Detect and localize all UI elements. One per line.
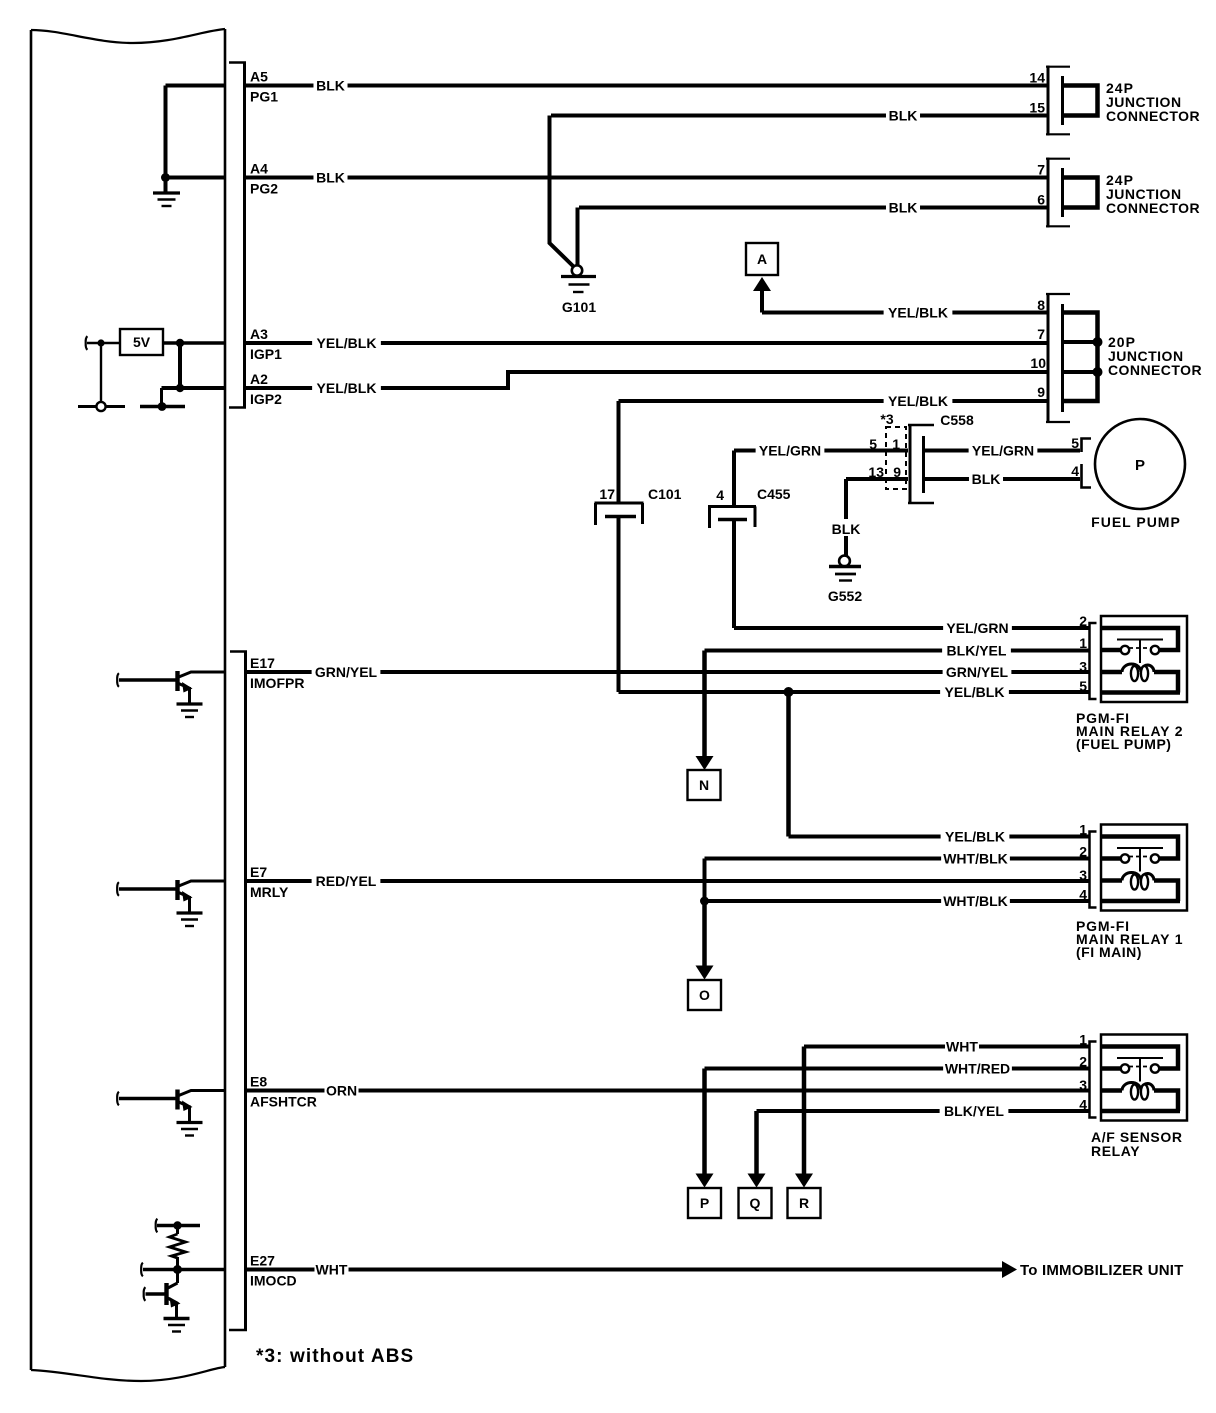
destination box R — [788, 1188, 821, 1218]
wire BLK/YEL relay2 pin1 — [705, 642, 1090, 660]
svg-text:ORN: ORN — [326, 1083, 357, 1099]
svg-text:15: 15 — [1029, 100, 1045, 116]
relay PGM-FI MAIN RELAY 2 (FUEL PUMP) — [1079, 613, 1187, 702]
wire WHT/RED af relay pin2 — [705, 1060, 1090, 1078]
in-line connector C101 (pin 17) — [595, 486, 682, 525]
junction dot E27 wire — [173, 1265, 182, 1274]
svg-text:10: 10 — [1030, 355, 1046, 371]
svg-text:9: 9 — [1037, 384, 1045, 400]
wire drop to R — [802, 1047, 807, 1174]
wire BLK to G552 — [830, 479, 862, 556]
svg-text:WHT: WHT — [316, 1262, 348, 1278]
label PGM-FI MAIN RELAY 1 — [1076, 918, 1183, 960]
transistor E8 driver — [117, 1090, 226, 1136]
svg-text:P: P — [1135, 457, 1145, 474]
wire A5 BLK — [244, 77, 1048, 95]
pin A3/IGP1 label — [250, 326, 282, 362]
continuation hook E27 rail — [156, 1219, 158, 1233]
label 24P junction connector (second) — [1106, 172, 1200, 216]
svg-text:AFSHTCR: AFSHTCR — [250, 1094, 317, 1110]
body-ground open circle — [96, 402, 105, 411]
label C558 pin 1 — [892, 436, 900, 452]
fuel pump connector brackets — [1082, 439, 1092, 488]
24P junction connector (pins 7,6) — [1037, 158, 1097, 228]
svg-text:*3: *3 — [880, 411, 893, 427]
svg-text:14: 14 — [1029, 70, 1045, 86]
ground bar A2 — [140, 402, 185, 411]
label C558 pin 13 — [868, 464, 884, 480]
svg-text:Q: Q — [750, 1195, 761, 1211]
arrow to O — [696, 966, 714, 980]
wire riser A3-A2 — [178, 343, 182, 388]
label 24P junction connector (top) — [1106, 80, 1200, 124]
voltage regulator box 5V — [120, 329, 163, 355]
relay A/F SENSOR RELAY — [1079, 1032, 1187, 1121]
wire YEL/BLK to relay2 pin5 — [619, 683, 1090, 701]
pin E7/MRLY label — [250, 864, 289, 900]
svg-text:E27: E27 — [250, 1253, 275, 1269]
wire ORN E8 to af relay pin3 — [244, 1082, 1089, 1100]
5V reference branch — [78, 343, 125, 407]
transistor E27 driver — [144, 1283, 190, 1332]
ground G552 symbol — [828, 556, 862, 604]
svg-text:C455: C455 — [757, 486, 791, 502]
label C558 pin 5 (left) — [869, 436, 877, 452]
24P junction connector (pins 14,15) — [1029, 66, 1097, 136]
wire BLK C558 to fuel pump — [924, 470, 1081, 488]
svg-text:To IMMOBILIZER UNIT: To IMMOBILIZER UNIT — [1020, 1262, 1184, 1279]
svg-text:BLK: BLK — [889, 200, 918, 216]
svg-text:BLK: BLK — [972, 471, 1001, 487]
svg-text:R: R — [799, 1195, 809, 1211]
svg-text:4: 4 — [716, 487, 724, 503]
wire YEL/GRN to C558 — [734, 442, 908, 460]
svg-text:PG1: PG1 — [250, 89, 278, 105]
svg-text:YEL/BLK: YEL/BLK — [888, 393, 948, 409]
svg-text:YEL/BLK: YEL/BLK — [945, 684, 1005, 700]
svg-text:RED/YEL: RED/YEL — [316, 873, 377, 889]
arrow to A — [753, 277, 771, 313]
wire A4 internal — [166, 176, 227, 180]
transistor E17 driver — [117, 671, 226, 717]
svg-text:BLK: BLK — [316, 170, 345, 186]
junction dot O branch — [700, 897, 709, 906]
junction dot A3 branch — [176, 339, 184, 347]
junction dot 20P pin10 bus — [1093, 367, 1103, 377]
arrow to P — [696, 1174, 714, 1188]
wire riser C101 net — [617, 401, 621, 692]
wire WHT af relay pin1 — [804, 1038, 1089, 1056]
ECM/PCM box (torn-edge outline) — [31, 29, 225, 1381]
wire A2 internal — [162, 386, 227, 390]
wire drop to O — [702, 901, 707, 966]
connector C558 — [908, 412, 974, 504]
svg-text:7: 7 — [1037, 326, 1045, 342]
fuel pump motor — [1091, 419, 1185, 530]
destination box A — [746, 243, 778, 275]
svg-text:17: 17 — [599, 486, 615, 502]
svg-text:G101: G101 — [562, 299, 596, 315]
svg-text:BLK/YEL: BLK/YEL — [944, 1103, 1004, 1119]
svg-text:BLK: BLK — [832, 521, 861, 537]
svg-text:YEL/BLK: YEL/BLK — [945, 829, 1005, 845]
wire drop to P — [702, 1069, 707, 1174]
svg-text:A2: A2 — [250, 371, 268, 387]
svg-text:CONNECTOR: CONNECTOR — [1106, 200, 1200, 216]
wire riser to N — [702, 651, 707, 757]
svg-text:G552: G552 — [828, 588, 862, 604]
svg-text:(FI MAIN): (FI MAIN) — [1076, 944, 1142, 960]
svg-text:BLK: BLK — [889, 108, 918, 124]
label PGM-FI MAIN RELAY 2 — [1076, 710, 1183, 752]
wire WHT/BLK relay1 pin4 — [705, 892, 1090, 910]
wire 5V to A3 pin — [163, 341, 226, 345]
svg-text:CONNECTOR: CONNECTOR — [1106, 108, 1200, 124]
wire WHT E27 to immobilizer — [244, 1261, 1003, 1279]
arrow to Q — [748, 1174, 766, 1188]
destination box O — [688, 980, 721, 1010]
wire WHT/BLK relay1 pin2 — [705, 850, 1090, 868]
svg-text:E8: E8 — [250, 1074, 267, 1090]
pin A5/PG1 label — [250, 69, 278, 105]
svg-text:GRN/YEL: GRN/YEL — [946, 664, 1009, 680]
in-line connector C455 (pin 4) — [708, 486, 791, 528]
continuation hook 5V — [86, 336, 88, 350]
wire YEL/BLK to 20P pin 8 — [762, 304, 1048, 322]
continuation hook E27 wire — [141, 1263, 143, 1277]
svg-text:*3: without ABS: *3: without ABS — [256, 1346, 414, 1367]
svg-text:O: O — [699, 987, 710, 1003]
pin E27/IMOCD label — [250, 1253, 297, 1289]
note *3 without ABS — [256, 1346, 414, 1367]
pin E17/IMOFPR label — [250, 655, 304, 691]
arrow to immobilizer unit — [1002, 1261, 1017, 1278]
wire riser O branch — [703, 859, 707, 902]
pin A4/PG2 label — [250, 161, 278, 197]
wire internal riser A5-A4 — [164, 86, 168, 192]
svg-text:A3: A3 — [250, 326, 268, 342]
wire BLK/YEL af relay pin4 — [757, 1102, 1090, 1120]
svg-text:E7: E7 — [250, 864, 267, 880]
junction dot A4 ground — [161, 173, 170, 182]
svg-text:5: 5 — [1071, 435, 1079, 451]
wire drop to transistor collector — [176, 1270, 179, 1284]
svg-text:A4: A4 — [250, 161, 268, 177]
svg-text:5V: 5V — [133, 334, 151, 350]
wire YEL/GRN to relay2 pin2 — [734, 619, 1089, 637]
wire riser G101 left — [550, 116, 574, 267]
arrow to R — [795, 1174, 813, 1188]
svg-text:IGP2: IGP2 — [250, 391, 282, 407]
20P junction connector (pins 8,7,10,9) — [1030, 293, 1097, 423]
svg-text:PG2: PG2 — [250, 181, 278, 197]
transistor E7 driver — [117, 880, 226, 926]
wire riser C455 net — [732, 451, 736, 629]
svg-text:RELAY: RELAY — [1091, 1143, 1140, 1159]
fuel pump pin 4 label — [1071, 463, 1079, 479]
wire BLK to 24P pin 6 — [579, 199, 1048, 217]
wire riser relay1 pin1 — [786, 692, 791, 837]
svg-text:GRN/YEL: GRN/YEL — [315, 664, 378, 680]
wire A2 YEL/BLK (jog up to pin 10) — [244, 372, 1048, 397]
wire BLK to 24P pin 15 — [551, 107, 1048, 125]
destination box Q — [739, 1188, 772, 1218]
junction dot YEL/BLK branch — [784, 687, 794, 697]
without-ABS dashed box (*3) — [880, 411, 906, 489]
ground G101 symbol — [561, 265, 596, 315]
svg-text:YEL/BLK: YEL/BLK — [317, 335, 377, 351]
junction dot 20P pin7 bus — [1093, 337, 1103, 347]
wire GRN/YEL E17 to relay2 pin3 — [244, 663, 1089, 681]
svg-text:BLK/YEL: BLK/YEL — [947, 643, 1007, 659]
svg-text:C101: C101 — [648, 486, 682, 502]
destination box P — [688, 1188, 721, 1218]
arrow to N — [696, 756, 714, 770]
svg-text:YEL/GRN: YEL/GRN — [972, 443, 1034, 459]
svg-text:IMOCD: IMOCD — [250, 1273, 297, 1289]
wire A2 ground drop — [160, 388, 163, 404]
ground ECM internal (A5/A4) — [153, 193, 180, 206]
svg-text:A5: A5 — [250, 69, 268, 85]
svg-text:P: P — [700, 1195, 709, 1211]
svg-text:IGP1: IGP1 — [250, 346, 282, 362]
resistor E27 pull-up — [170, 1226, 186, 1270]
pin A2/IGP2 label — [250, 371, 282, 407]
wire YEL/BLK from 20P pin 9 — [619, 392, 1049, 410]
svg-text:YEL/BLK: YEL/BLK — [888, 305, 948, 321]
junction dot A2 branch — [176, 384, 184, 392]
svg-text:MRLY: MRLY — [250, 884, 289, 900]
wire drop to Q — [754, 1111, 759, 1174]
junction dot 5V left — [97, 339, 104, 346]
svg-text:WHT/BLK: WHT/BLK — [943, 851, 1008, 867]
svg-text:A: A — [757, 251, 767, 267]
wire A5 internal — [166, 84, 227, 88]
wire RED/YEL E7 to relay1 pin3 — [244, 872, 1089, 890]
svg-text:FUEL PUMP: FUEL PUMP — [1091, 514, 1181, 530]
label 20P junction connector — [1108, 334, 1202, 378]
wire E27 internal — [143, 1268, 226, 1271]
svg-text:5: 5 — [1079, 678, 1087, 694]
svg-text:WHT: WHT — [946, 1039, 978, 1055]
label To IMMOBILIZER UNIT — [1020, 1262, 1184, 1279]
svg-text:E17: E17 — [250, 655, 275, 671]
svg-text:IMOFPR: IMOFPR — [250, 675, 304, 691]
svg-text:WHT/RED: WHT/RED — [945, 1061, 1010, 1077]
label C558 pin 9 — [893, 464, 901, 480]
svg-text:C558: C558 — [940, 412, 974, 428]
junction dot E27 rail — [173, 1221, 181, 1229]
wire YEL/GRN C558 to fuel pump — [924, 442, 1081, 460]
svg-text:(FUEL PUMP): (FUEL PUMP) — [1076, 736, 1171, 752]
pin E8/AFSHTCR label — [250, 1074, 317, 1110]
wire A3 YEL/BLK — [244, 334, 1048, 352]
svg-text:5: 5 — [869, 436, 877, 452]
svg-text:7: 7 — [1037, 162, 1045, 178]
wire E27 pull-up rail — [157, 1224, 200, 1227]
wire YEL/BLK relay1 pin1 — [789, 828, 1090, 846]
ECM connector strip A (pins A5,A4,A3,A2) — [229, 63, 246, 409]
svg-text:1: 1 — [892, 436, 900, 452]
wire A4 BLK — [244, 169, 1048, 187]
svg-text:BLK: BLK — [316, 78, 345, 94]
destination box N — [688, 770, 721, 800]
svg-text:4: 4 — [1071, 463, 1079, 479]
svg-text:2: 2 — [1079, 613, 1087, 629]
fuel pump pin 5 label — [1071, 435, 1079, 451]
svg-text:CONNECTOR: CONNECTOR — [1108, 362, 1202, 378]
wire 5V left — [87, 342, 120, 344]
svg-text:WHT/BLK: WHT/BLK — [943, 893, 1008, 909]
svg-text:6: 6 — [1037, 192, 1045, 208]
svg-text:YEL/BLK: YEL/BLK — [317, 380, 377, 396]
ECM connector strip E (pins E17,E7,E8,E27) — [229, 651, 247, 1331]
wire BLK C558 left — [846, 477, 908, 481]
svg-text:YEL/GRN: YEL/GRN — [759, 443, 821, 459]
svg-text:YEL/GRN: YEL/GRN — [946, 620, 1008, 636]
svg-text:8: 8 — [1037, 297, 1045, 313]
wire riser G101 right — [576, 208, 580, 266]
relay PGM-FI MAIN RELAY 1 (FI MAIN) — [1079, 822, 1187, 911]
svg-text:N: N — [699, 777, 709, 793]
label A/F SENSOR RELAY — [1091, 1129, 1183, 1159]
